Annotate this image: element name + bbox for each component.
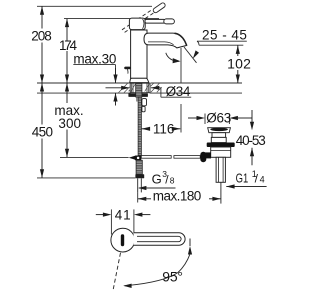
svg-text:102: 102 — [227, 56, 251, 72]
svg-text:95°: 95° — [162, 269, 183, 285]
svg-text:8: 8 — [170, 175, 175, 185]
svg-text:4: 4 — [260, 175, 265, 185]
svg-text:Ø63: Ø63 — [206, 110, 231, 125]
svg-text:max.30: max.30 — [73, 52, 116, 67]
svg-text:208: 208 — [31, 28, 52, 43]
svg-text:450: 450 — [32, 124, 53, 139]
svg-text:25 - 45: 25 - 45 — [202, 27, 247, 42]
svg-text:174: 174 — [59, 38, 77, 53]
svg-text:max.180: max.180 — [153, 188, 202, 203]
svg-text:300: 300 — [58, 116, 81, 131]
svg-text:41: 41 — [115, 207, 131, 222]
svg-text:40-53: 40-53 — [236, 133, 266, 148]
svg-text:G1: G1 — [236, 170, 249, 185]
svg-text:116: 116 — [153, 121, 175, 136]
svg-text:Ø34: Ø34 — [166, 84, 191, 99]
svg-text:G: G — [152, 171, 162, 186]
